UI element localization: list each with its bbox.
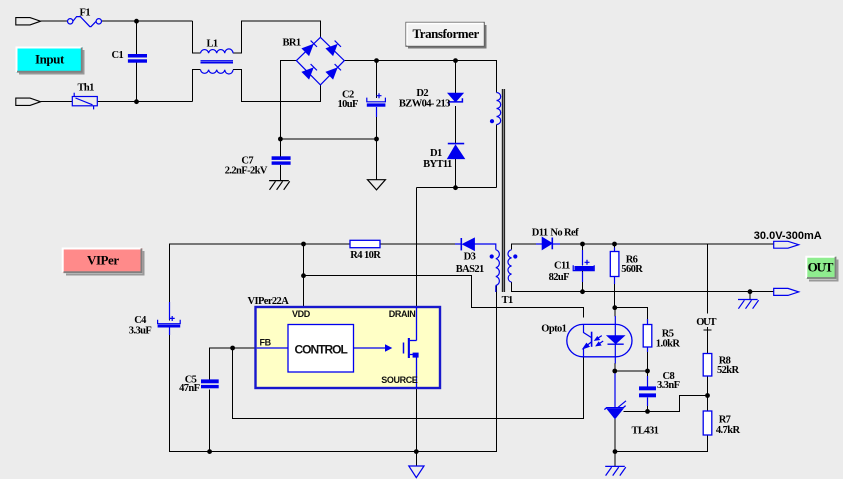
svg-text:1.0kR: 1.0kR — [656, 338, 681, 349]
svg-text:C4: C4 — [134, 315, 147, 326]
svg-text:VIPer22A: VIPer22A — [248, 296, 290, 307]
svg-text:T1: T1 — [502, 295, 513, 306]
svg-text:3.3uF: 3.3uF — [129, 326, 152, 337]
svg-text:OUT: OUT — [808, 260, 834, 275]
svg-text:OUT: OUT — [696, 317, 716, 328]
svg-text:FB: FB — [260, 338, 272, 348]
svg-text:SOURCE: SOURCE — [381, 375, 418, 385]
svg-text:560R: 560R — [621, 264, 643, 275]
svg-text:82uF: 82uF — [549, 272, 570, 283]
svg-text:D1: D1 — [430, 148, 442, 159]
svg-text:C1: C1 — [112, 50, 124, 61]
svg-text:4.7kR: 4.7kR — [716, 425, 741, 436]
svg-text:DRAIN: DRAIN — [389, 309, 416, 319]
svg-text:30.0V-300mA: 30.0V-300mA — [754, 230, 822, 242]
svg-text:VDD: VDD — [292, 309, 311, 319]
svg-text:C7: C7 — [241, 155, 253, 166]
svg-text:R7: R7 — [719, 415, 731, 426]
svg-text:BZW04- 213: BZW04- 213 — [399, 99, 450, 110]
svg-text:2.2nF-2kV: 2.2nF-2kV — [225, 166, 268, 177]
svg-text:10uF: 10uF — [338, 99, 359, 110]
svg-text:F1: F1 — [80, 8, 91, 19]
svg-text:52kR: 52kR — [717, 365, 740, 376]
svg-text:TL431: TL431 — [632, 426, 659, 437]
svg-text:VIPer: VIPer — [87, 252, 119, 267]
svg-text:C11: C11 — [554, 261, 570, 272]
svg-text:Transformer: Transformer — [413, 26, 480, 41]
svg-text:BYT11: BYT11 — [423, 159, 452, 170]
svg-text:D11: D11 — [532, 227, 548, 238]
svg-text:CONTROL: CONTROL — [295, 342, 348, 356]
svg-text:47nF: 47nF — [179, 383, 200, 394]
svg-text:L1: L1 — [207, 39, 218, 50]
svg-text:Input: Input — [35, 52, 65, 67]
svg-text:BAS21: BAS21 — [456, 264, 484, 275]
svg-text:3.3nF: 3.3nF — [657, 380, 680, 391]
svg-text:No Ref: No Ref — [550, 227, 579, 238]
svg-text:D2: D2 — [416, 88, 428, 99]
svg-text:D3: D3 — [464, 251, 476, 262]
svg-text:Opto1: Opto1 — [541, 323, 566, 334]
svg-text:R4 10R: R4 10R — [350, 250, 381, 261]
svg-text:Th1: Th1 — [78, 83, 95, 94]
svg-text:BR1: BR1 — [283, 37, 301, 48]
